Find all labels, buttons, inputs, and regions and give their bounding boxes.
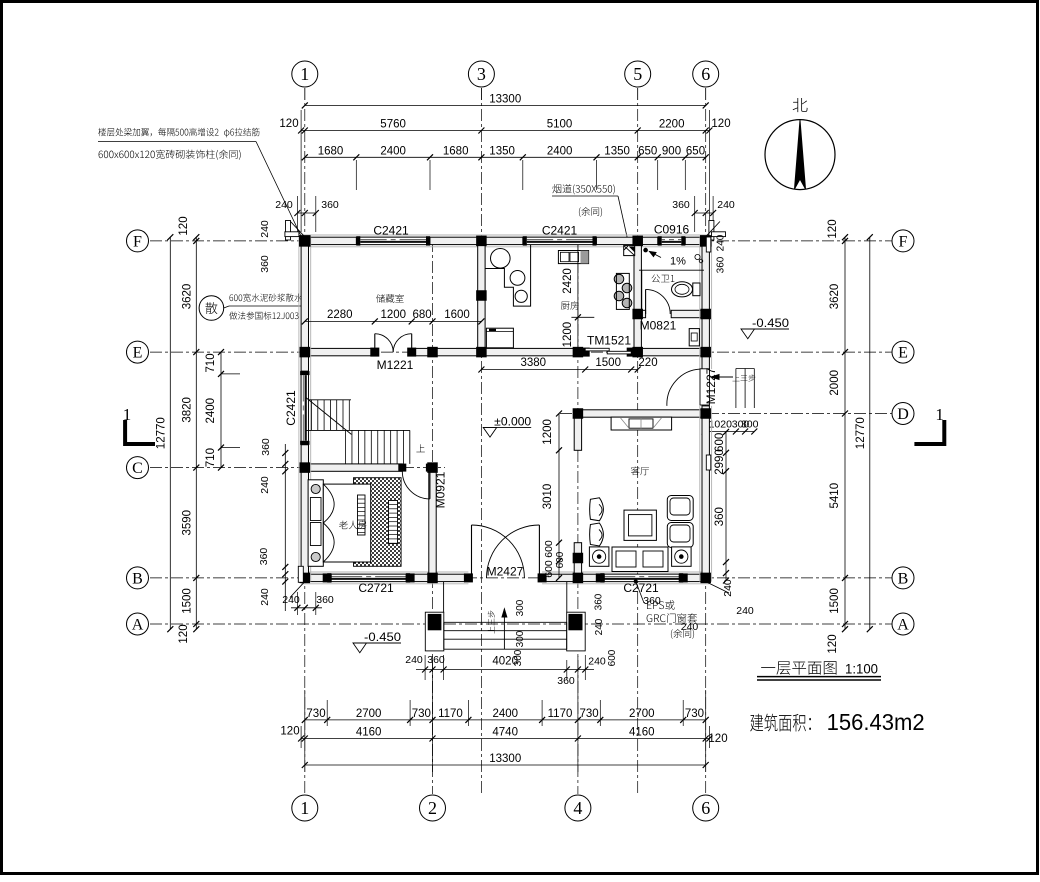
svg-text:4160: 4160 bbox=[356, 727, 382, 739]
svg-text:1170: 1170 bbox=[438, 708, 463, 720]
svg-text:2700: 2700 bbox=[356, 708, 382, 720]
svg-text:4020: 4020 bbox=[492, 656, 518, 668]
svg-text:4160: 4160 bbox=[629, 727, 655, 739]
svg-text:1500: 1500 bbox=[181, 588, 193, 614]
svg-text:M1221: M1221 bbox=[377, 358, 414, 372]
svg-text:710: 710 bbox=[205, 448, 217, 467]
svg-text:M0821: M0821 bbox=[640, 319, 677, 333]
svg-text:TM1521: TM1521 bbox=[587, 334, 631, 348]
svg-text:3620: 3620 bbox=[829, 284, 841, 310]
svg-text:M0921: M0921 bbox=[434, 471, 448, 508]
svg-text:120: 120 bbox=[178, 216, 190, 235]
svg-text:1: 1 bbox=[300, 798, 309, 818]
svg-text:5: 5 bbox=[633, 64, 642, 84]
svg-text:1500: 1500 bbox=[829, 588, 841, 614]
svg-text:1200: 1200 bbox=[542, 419, 554, 445]
svg-text:240: 240 bbox=[681, 621, 699, 633]
svg-text:12770: 12770 bbox=[155, 417, 167, 449]
svg-text:730: 730 bbox=[580, 708, 599, 720]
svg-text:360: 360 bbox=[714, 507, 726, 526]
svg-text:3620: 3620 bbox=[181, 284, 193, 310]
svg-text:240: 240 bbox=[722, 579, 734, 597]
svg-text:156.43m2: 156.43m2 bbox=[827, 709, 925, 735]
svg-text:240: 240 bbox=[717, 199, 735, 211]
svg-text:13300: 13300 bbox=[489, 93, 521, 105]
svg-text:360: 360 bbox=[557, 675, 575, 687]
svg-text:900: 900 bbox=[662, 145, 681, 157]
svg-text:3010: 3010 bbox=[542, 484, 554, 510]
svg-text:1600: 1600 bbox=[444, 309, 470, 321]
svg-text:3: 3 bbox=[477, 64, 486, 84]
svg-text:C2721: C2721 bbox=[623, 581, 659, 595]
svg-text:5760: 5760 bbox=[380, 119, 406, 131]
svg-text:360: 360 bbox=[260, 438, 272, 456]
svg-text:2700: 2700 bbox=[629, 708, 655, 720]
svg-text:C2421: C2421 bbox=[542, 224, 578, 238]
svg-text:650: 650 bbox=[638, 145, 657, 157]
svg-text:A: A bbox=[132, 616, 144, 633]
svg-text:6: 6 bbox=[701, 64, 710, 84]
svg-text:2420: 2420 bbox=[562, 268, 574, 294]
svg-text:2400: 2400 bbox=[492, 708, 518, 720]
svg-text:1350: 1350 bbox=[604, 145, 630, 157]
svg-text:1: 1 bbox=[300, 64, 309, 84]
svg-text:2: 2 bbox=[428, 798, 437, 818]
svg-text:710: 710 bbox=[205, 353, 217, 372]
svg-text:E: E bbox=[133, 345, 143, 362]
svg-text:E: E bbox=[898, 345, 908, 362]
svg-text:3380: 3380 bbox=[521, 357, 547, 369]
svg-text:600: 600 bbox=[543, 540, 555, 558]
svg-text:360: 360 bbox=[672, 199, 690, 211]
svg-text:240: 240 bbox=[259, 476, 271, 494]
svg-text:240: 240 bbox=[405, 654, 423, 666]
svg-text:240: 240 bbox=[588, 656, 606, 668]
svg-text:2000: 2000 bbox=[829, 370, 841, 396]
svg-text:1500: 1500 bbox=[595, 357, 621, 369]
svg-text:13300: 13300 bbox=[489, 753, 521, 765]
svg-text:1%: 1% bbox=[670, 256, 686, 268]
svg-text:1200: 1200 bbox=[562, 322, 574, 348]
svg-text:3820: 3820 bbox=[181, 397, 193, 423]
svg-text:-0.450: -0.450 bbox=[364, 630, 401, 644]
svg-text:300: 300 bbox=[741, 419, 759, 431]
svg-text:2990: 2990 bbox=[714, 449, 726, 475]
svg-text:C2421: C2421 bbox=[284, 390, 298, 426]
svg-text:1680: 1680 bbox=[318, 145, 344, 157]
svg-text:B: B bbox=[132, 570, 143, 587]
svg-text:730: 730 bbox=[685, 708, 704, 720]
svg-text:1680: 1680 bbox=[443, 145, 469, 157]
svg-text:240: 240 bbox=[259, 220, 271, 238]
svg-text:1170: 1170 bbox=[548, 708, 573, 720]
svg-text:600: 600 bbox=[543, 560, 555, 578]
svg-text:C0916: C0916 bbox=[654, 223, 690, 237]
svg-text:120: 120 bbox=[711, 118, 730, 130]
svg-text:B: B bbox=[898, 570, 909, 587]
svg-text:360: 360 bbox=[643, 595, 661, 607]
svg-text:C: C bbox=[132, 460, 143, 477]
svg-text:360: 360 bbox=[321, 199, 339, 211]
svg-text:D: D bbox=[897, 406, 909, 423]
svg-text:12770: 12770 bbox=[855, 417, 867, 449]
svg-text:2400: 2400 bbox=[547, 145, 573, 157]
svg-text:240: 240 bbox=[736, 605, 754, 617]
svg-text:730: 730 bbox=[412, 708, 431, 720]
svg-text:C2721: C2721 bbox=[358, 581, 394, 595]
svg-text:120: 120 bbox=[827, 634, 839, 653]
svg-text:2400: 2400 bbox=[205, 398, 217, 424]
svg-text:2200: 2200 bbox=[659, 119, 685, 131]
svg-text:1:100: 1:100 bbox=[845, 661, 878, 677]
svg-text:680: 680 bbox=[413, 309, 432, 321]
svg-text:730: 730 bbox=[306, 708, 325, 720]
svg-text:2400: 2400 bbox=[380, 145, 406, 157]
svg-text:120: 120 bbox=[827, 219, 839, 238]
svg-text:300: 300 bbox=[515, 630, 526, 647]
svg-text:1200: 1200 bbox=[381, 309, 407, 321]
svg-text:300: 300 bbox=[515, 599, 526, 616]
svg-text:360: 360 bbox=[258, 548, 270, 566]
svg-text:M1227: M1227 bbox=[704, 367, 718, 404]
svg-text:360: 360 bbox=[716, 256, 727, 273]
svg-text:F: F bbox=[133, 233, 142, 250]
svg-text:4740: 4740 bbox=[492, 727, 518, 739]
svg-text:3590: 3590 bbox=[181, 510, 193, 536]
svg-text:4: 4 bbox=[573, 798, 582, 818]
svg-text:M2427: M2427 bbox=[487, 565, 524, 579]
svg-text:120: 120 bbox=[280, 726, 299, 738]
svg-text:5410: 5410 bbox=[829, 483, 841, 509]
svg-text:240: 240 bbox=[594, 618, 605, 635]
svg-text:2280: 2280 bbox=[327, 309, 353, 321]
svg-text:6: 6 bbox=[701, 798, 710, 818]
svg-text:1020: 1020 bbox=[709, 419, 733, 431]
svg-text:120: 120 bbox=[178, 624, 190, 643]
svg-text:-0.450: -0.450 bbox=[752, 316, 789, 330]
svg-text:360: 360 bbox=[427, 654, 445, 666]
svg-text:600: 600 bbox=[607, 649, 618, 666]
svg-text:240: 240 bbox=[716, 234, 727, 251]
svg-text:±0.000: ±0.000 bbox=[494, 414, 531, 428]
svg-text:360: 360 bbox=[316, 594, 334, 606]
svg-text:360: 360 bbox=[593, 593, 604, 610]
svg-text:120: 120 bbox=[708, 733, 727, 745]
svg-text:120: 120 bbox=[279, 118, 298, 130]
svg-text:220: 220 bbox=[638, 357, 657, 369]
svg-text:650: 650 bbox=[686, 145, 705, 157]
svg-text:5100: 5100 bbox=[547, 119, 573, 131]
svg-text:360: 360 bbox=[259, 255, 271, 273]
svg-text:240: 240 bbox=[259, 588, 271, 606]
svg-text:F: F bbox=[899, 233, 908, 250]
svg-text:600: 600 bbox=[714, 433, 726, 452]
svg-text:A: A bbox=[897, 616, 909, 633]
svg-text:C2421: C2421 bbox=[373, 224, 409, 238]
svg-text:1350: 1350 bbox=[489, 145, 515, 157]
